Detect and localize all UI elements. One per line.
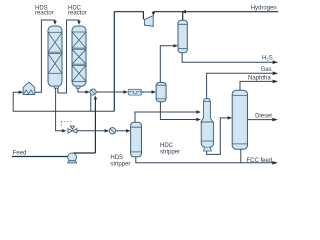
- pump P1: [68, 153, 77, 163]
- svg-text:HDC: HDC: [160, 143, 174, 149]
- wire separator bottoms to HDC stripper: [160, 102, 198, 120]
- svg-text:Feed: Feed: [13, 150, 27, 156]
- wire valve to letdown drum: [77, 130, 107, 132]
- arrow into HDS reactor top: [53, 21, 57, 25]
- arrow feed into mixer: [94, 96, 98, 100]
- svg-text:Hydrogen: Hydrogen: [251, 5, 277, 11]
- arrow H2S: [273, 60, 279, 64]
- wire absorber bottoms to H2S outlet: [182, 53, 276, 62]
- wire diesel draw: [248, 119, 276, 121]
- wire HDS stripper overhead to HDC stripper: [135, 112, 198, 122]
- arrow into heater: [19, 91, 24, 94]
- wire hydrogen header: [114, 12, 278, 112]
- wire HDC bottoms to mixer: [78, 88, 88, 92]
- compressor K1: [144, 16, 153, 27]
- arrow into separator: [152, 90, 157, 93]
- heater H1: [23, 82, 35, 94]
- wire HDC stripper overhead to Gas outlet: [207, 73, 276, 98]
- fractionator C4: [232, 90, 247, 149]
- arrow into HDC stripper upper: [196, 110, 201, 113]
- arrow into fractionator: [228, 116, 233, 119]
- arrow hydrogen flow left: [181, 10, 186, 14]
- wire HDS reactor liquid letdown: [56, 88, 65, 131]
- arrow FCC feed: [272, 161, 278, 165]
- arrow into letdown drum: [105, 129, 110, 132]
- wire mixer leg to recycle line: [90, 95, 92, 112]
- letdown drum M2: [109, 128, 115, 134]
- arrow Naphtha: [273, 80, 279, 84]
- HDS stripper C2: [131, 122, 142, 157]
- wire feed riser: [94, 97, 96, 153]
- wire pump discharge: [74, 152, 96, 154]
- arrow into absorber: [173, 44, 178, 47]
- HDC reactor R2: [72, 26, 86, 88]
- wire separator overhead to absorber: [160, 46, 176, 83]
- separator drum V1: [156, 83, 166, 102]
- svg-text:Diesel: Diesel: [255, 114, 272, 120]
- arrow into valve: [62, 129, 67, 132]
- arrow into HDC reactor top: [77, 21, 81, 25]
- wire recycle gas to feed line: [13, 92, 114, 111]
- arrow Diesel: [272, 118, 278, 122]
- wire fractionator overhead to Naphtha outlet: [240, 81, 276, 90]
- wire fractionator bottoms: [240, 149, 242, 163]
- mixer M1: [90, 89, 96, 95]
- HDS reactor R1: [48, 26, 62, 88]
- svg-text:Naphtha: Naphtha: [248, 75, 271, 81]
- svg-text:Gas: Gas: [261, 67, 272, 73]
- wire cooler to separator: [142, 91, 154, 93]
- arrow into HDS stripper: [126, 129, 131, 132]
- wire feed inlet: [12, 156, 68, 158]
- valve LV1: [68, 126, 77, 133]
- HDC stripper C3: [201, 99, 214, 152]
- wire absorber overhead to hydrogen header: [182, 12, 184, 21]
- cooler E1: [128, 89, 142, 95]
- arrow into HDC stripper lower: [196, 118, 201, 121]
- wire heater outlet to HDS reactor: [35, 20, 55, 92]
- arrow into cooler: [123, 90, 128, 93]
- wire instrument signal dashes: [61, 121, 72, 127]
- svg-text:HDS: HDS: [110, 155, 123, 161]
- svg-text:stripper: stripper: [110, 162, 130, 168]
- svg-text:reactor: reactor: [68, 11, 87, 17]
- svg-text:H2S: H2S: [262, 55, 273, 61]
- arrow compressor suction: [152, 12, 156, 16]
- wire HDC stripper bottoms to fractionator: [207, 118, 230, 154]
- wire HDS stripper bottoms to FCC feed line: [136, 157, 276, 163]
- svg-text:stripper: stripper: [160, 149, 180, 155]
- svg-text:FCC feed: FCC feed: [247, 158, 273, 164]
- wire letdown drum to HDS stripper: [116, 130, 129, 132]
- absorber C1: [178, 20, 187, 53]
- arrow into mixer: [85, 90, 90, 93]
- wire mixer to cooler: [96, 91, 126, 93]
- svg-text:reactor: reactor: [35, 11, 54, 17]
- wire HDS bottoms to HDC reactor top: [58, 20, 79, 93]
- arrow Gas: [273, 72, 279, 76]
